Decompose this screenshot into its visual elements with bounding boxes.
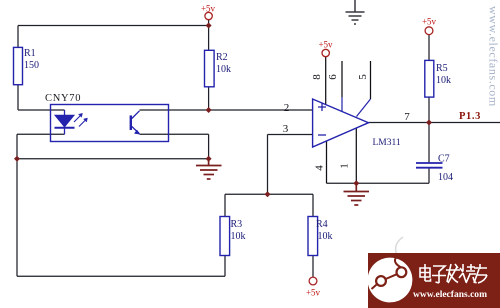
node pin1/gnd	[353, 180, 359, 186]
optocoupler CNY70 box	[45, 93, 169, 142]
pin 4	[326, 141, 328, 184]
watermark logo disc	[368, 258, 413, 303]
wire ground rail y159	[17, 158, 209, 160]
ground symbol top right	[346, 0, 365, 24]
svg-text:7: 7	[404, 111, 410, 123]
svg-text:P1.3: P1.3	[459, 111, 481, 122]
pin 6	[341, 61, 343, 97]
node pin2/R2/collector	[206, 107, 212, 113]
svg-text:R5: R5	[436, 63, 448, 74]
watermark logo tail	[396, 237, 403, 254]
resistor R2	[205, 50, 232, 87]
wire bottom loop to R3	[17, 159, 225, 276]
power +5v above R5	[422, 17, 437, 35]
svg-text:10k: 10k	[436, 75, 451, 86]
wire pin3 net	[268, 135, 313, 195]
svg-text:www.elecfans.com: www.elecfans.com	[487, 6, 500, 107]
pin 5	[370, 61, 372, 99]
node pin7/R5/C7	[426, 120, 432, 126]
svg-text:R3: R3	[231, 219, 243, 230]
wire LED anode	[18, 109, 65, 111]
pin 6 lower blue segment	[342, 97, 371, 117]
wire R2 top lead	[208, 20, 210, 51]
svg-text:1: 1	[339, 163, 351, 169]
svg-text:+5v: +5v	[306, 288, 321, 298]
wire R2 bottom lead	[208, 87, 210, 110]
watermark hanzi 发	[446, 264, 460, 283]
watermark hanzi 子	[432, 266, 446, 283]
svg-text:+5v: +5v	[318, 40, 333, 50]
capacitor C7	[416, 154, 453, 184]
svg-text:10k: 10k	[318, 231, 333, 242]
svg-text:6: 6	[327, 74, 339, 80]
pin 8	[326, 57, 371, 184]
resistor R3	[220, 217, 246, 256]
power +5v above pin8	[318, 40, 333, 57]
svg-text:10k: 10k	[216, 64, 231, 75]
wire bottom net pin4/pin1/C7	[327, 182, 430, 184]
svg-text:R4: R4	[316, 219, 328, 230]
svg-text:R1: R1	[24, 48, 36, 59]
wire LED cathode loop	[17, 134, 65, 159]
svg-text:3: 3	[283, 123, 289, 135]
op-amp U1 LM311 triangle	[313, 99, 401, 148]
wire pin7 output net to P1.3	[369, 122, 500, 124]
svg-text:104: 104	[438, 172, 453, 183]
wire pin2 net collector to opamp	[140, 109, 313, 111]
LED D1 inside CNY70	[55, 110, 88, 134]
svg-text:10k: 10k	[231, 231, 246, 242]
ground below LM311	[344, 183, 370, 205]
svg-text:R2: R2	[216, 52, 228, 63]
wire R1 top lead	[17, 26, 19, 48]
node left rail	[14, 156, 20, 162]
watermark hanzi 电	[420, 264, 487, 283]
pin 5 diagonal into triangle	[357, 99, 371, 117]
pin 1	[355, 128, 357, 184]
svg-text:4: 4	[314, 165, 326, 171]
power +5v above R2	[201, 4, 216, 20]
svg-text:+5v: +5v	[422, 17, 437, 27]
wire R5 leads	[428, 35, 430, 123]
wire R1 bottom lead	[17, 85, 19, 110]
power +5v below R4	[306, 277, 321, 297]
svg-text:www.elecfans.com: www.elecfans.com	[413, 290, 487, 300]
svg-text:5: 5	[357, 74, 369, 80]
svg-text:LM311: LM311	[373, 138, 401, 148]
svg-text:C7: C7	[438, 154, 450, 165]
LED light arrows	[74, 115, 82, 123]
wire C7 leads	[428, 123, 430, 184]
resistor R4	[308, 217, 333, 256]
node gnd rail	[206, 156, 212, 162]
resistor R5	[425, 60, 451, 97]
svg-text:2: 2	[284, 102, 290, 114]
node R3/R4/pin3	[265, 191, 271, 197]
wire emitter to ground rail	[140, 134, 209, 159]
ground at optocoupler rail	[196, 159, 222, 179]
watermark hanzi 烧	[459, 264, 477, 283]
watermark box elecfans	[368, 253, 500, 308]
wire R4 bottom lead	[312, 256, 314, 278]
resistor R1	[14, 47, 40, 84]
watermark hanzi 友	[474, 264, 487, 283]
node top +5v/R2	[206, 23, 212, 29]
phototransistor inside CNY70	[131, 111, 140, 134]
wire mid rail R3-R4	[225, 194, 313, 216]
svg-text:150: 150	[24, 60, 39, 71]
svg-text:CNY70: CNY70	[45, 93, 81, 104]
svg-text:8: 8	[311, 74, 323, 80]
